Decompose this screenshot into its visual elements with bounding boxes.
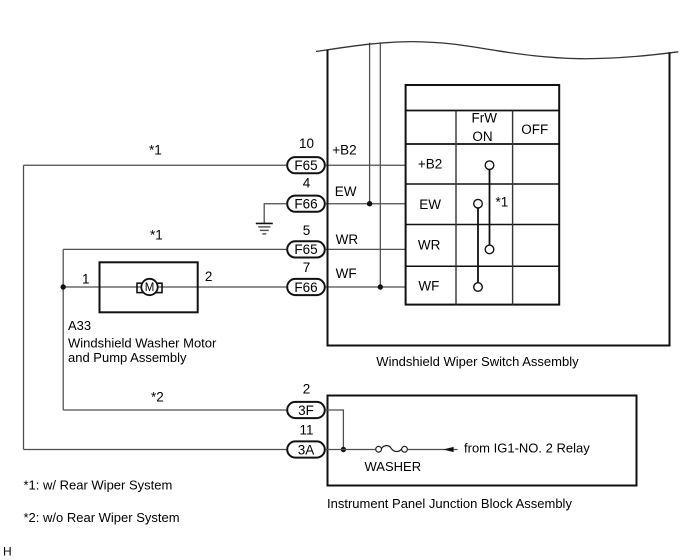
svg-text:3F: 3F [298, 403, 314, 418]
contact circle WF [474, 283, 483, 292]
svg-text:and Pump Assembly: and Pump Assembly [68, 350, 187, 365]
svg-text:+B2: +B2 [332, 142, 356, 157]
wire 3F horizontal [63, 409, 286, 411]
pin label WF (switch) [336, 266, 357, 281]
svg-text:Windshield Wiper Switch Assemb: Windshield Wiper Switch Assembly [376, 354, 579, 369]
svg-text:M: M [145, 282, 155, 294]
footnote *1 [24, 478, 173, 493]
svg-text:3A: 3A [298, 442, 315, 457]
fuse WASHER [376, 446, 408, 453]
connector F65 pin 10 [287, 157, 325, 173]
table note *1 [496, 195, 509, 210]
table row label EW [419, 197, 441, 212]
motor M symbol [141, 279, 157, 295]
svg-text:*1: *1 [149, 142, 162, 157]
note *1 middle [150, 228, 163, 243]
label Windshield Washer Motor and Pump Assembly [68, 335, 217, 365]
wire WR from F65 pin5 to inner bus [63, 248, 286, 250]
svg-text:2: 2 [303, 381, 311, 396]
wire motor row (pin1 to WF F66 pin7) [63, 286, 286, 288]
label A33 [68, 318, 91, 333]
svg-text:EW: EW [419, 197, 441, 212]
page marker H [3, 545, 12, 559]
note *2 [151, 389, 164, 404]
wire from relay [408, 449, 458, 451]
table header OFF [521, 122, 548, 137]
motor pin 1 [82, 272, 90, 287]
svg-text:WR: WR [418, 238, 441, 253]
caption Instrument Panel Junction Block Assembly [327, 496, 572, 511]
caption Windshield Wiper Switch Assembly [376, 354, 579, 369]
svg-text:F66: F66 [294, 197, 317, 212]
pin number 10 [299, 136, 314, 151]
box Instrument Panel Junction Block Assembly [328, 396, 637, 486]
svg-text:1: 1 [82, 272, 90, 287]
svg-text:*2: w/o Rear Wiper System: *2: w/o Rear Wiper System [24, 510, 180, 525]
svg-text:ON: ON [472, 129, 492, 144]
svg-text:F65: F65 [294, 158, 317, 173]
svg-text:Windshield Washer Motor: Windshield Washer Motor [68, 335, 217, 350]
label from IG1-NO. 2 Relay [464, 441, 590, 456]
svg-text:*1: w/ Rear Wiper System: *1: w/ Rear Wiper System [24, 478, 173, 493]
junction dot at motor pin1 bus [61, 284, 66, 289]
wire WF into switch table [326, 286, 406, 288]
svg-text:OFF: OFF [521, 122, 548, 137]
svg-text:H: H [3, 545, 12, 559]
wire EW branch vertical from top [369, 43, 371, 204]
pin label EW (switch) [335, 184, 357, 199]
pin number 2 [303, 381, 311, 396]
table header FrW ON [472, 110, 498, 144]
svg-text:WASHER: WASHER [365, 459, 422, 474]
svg-text:*2: *2 [151, 389, 164, 404]
svg-text:FrW: FrW [472, 110, 498, 125]
wire 3A to fuse [326, 449, 375, 451]
svg-text:EW: EW [335, 184, 357, 199]
svg-text:A33: A33 [68, 318, 91, 333]
wire WF branch vertical from top [379, 42, 381, 287]
motor pin 2 [205, 269, 213, 284]
contact circle EW [474, 199, 483, 208]
svg-text:10: 10 [299, 136, 314, 151]
pin number 4 [303, 176, 311, 191]
svg-text:WF: WF [418, 278, 439, 293]
wire inner bus vertical (WR to 3F) [62, 249, 64, 410]
junction dot 3F/3A [341, 447, 346, 452]
wire EW into switch table [326, 203, 406, 205]
wire +B2 from F65 pin10 to left bus [24, 164, 287, 166]
svg-text:WR: WR [336, 232, 359, 247]
motor brush right [156, 283, 163, 292]
pin number 7 [303, 260, 311, 275]
arrow from IG1-NO.2 relay [443, 447, 453, 452]
table row label WF [418, 278, 439, 293]
motor brush left [137, 283, 144, 292]
svg-text:+B2: +B2 [418, 157, 442, 172]
footnote *2 [24, 510, 180, 525]
pin number 11 [299, 423, 313, 438]
junction dot WF branch [378, 284, 383, 289]
table row label WR [418, 238, 441, 253]
svg-text:11: 11 [299, 423, 313, 438]
switch contact line EW to WF [477, 204, 479, 287]
label WASHER [365, 459, 422, 474]
table row label +B2 [418, 157, 442, 172]
svg-text:2: 2 [205, 269, 213, 284]
ground riser wire [264, 204, 286, 224]
washer motor box A33 [100, 262, 198, 312]
svg-text:4: 4 [303, 176, 311, 191]
wire +B2 into switch table [326, 164, 406, 166]
svg-text:WF: WF [336, 266, 357, 281]
note *1 upper [149, 142, 162, 157]
pin label +B2 (switch) [332, 142, 356, 157]
junction dot EW branch [367, 201, 372, 206]
wire 3F inside junction block [326, 410, 344, 450]
connector F66 pin 7 [287, 279, 325, 295]
switch contact line +B2 to WR [489, 165, 491, 249]
svg-text:*1: *1 [150, 228, 163, 243]
svg-text:5: 5 [303, 223, 311, 238]
connector 3F pin 2 [287, 402, 325, 418]
box Windshield Wiper Switch Assembly (torn wavy top) [316, 42, 678, 346]
svg-text:from IG1-NO. 2 Relay: from IG1-NO. 2 Relay [464, 441, 590, 456]
svg-text:*1: *1 [496, 195, 509, 210]
svg-text:Instrument Panel Junction Bloc: Instrument Panel Junction Block Assembly [327, 496, 572, 511]
connector F65 pin 5 [287, 241, 325, 257]
pin label WR (switch) [336, 232, 359, 247]
contact circle +B2 [485, 161, 494, 170]
svg-text:7: 7 [303, 260, 311, 275]
wire WR into switch table [326, 248, 406, 250]
connector F66 pin 4 [287, 196, 325, 212]
wire left bus vertical (+B2 to 3A) [23, 165, 25, 449]
svg-text:F65: F65 [294, 242, 317, 257]
connector 3A pin 11 [287, 441, 325, 457]
switch state table [406, 85, 560, 305]
wire 3A horizontal to F-junction-block [24, 449, 287, 451]
ground symbol [256, 223, 273, 234]
contact circle WR [485, 245, 494, 254]
svg-text:F66: F66 [294, 280, 317, 295]
pin number 5 [303, 223, 311, 238]
